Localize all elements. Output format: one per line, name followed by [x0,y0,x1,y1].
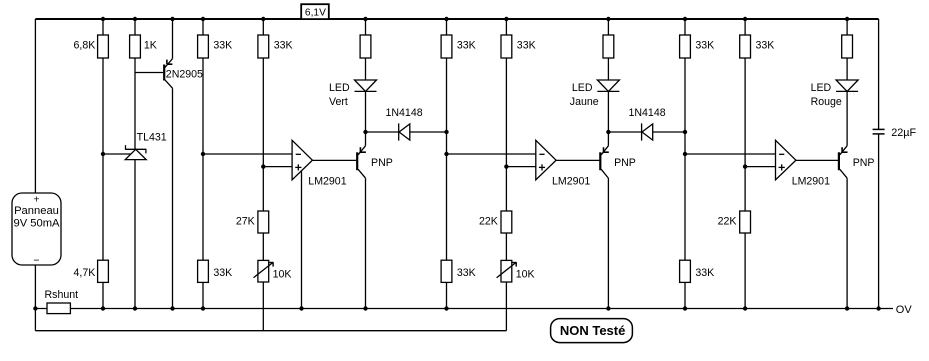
LED D2 triangle [597,80,619,91]
LED D1 triangle [355,80,377,91]
TL431 anode triangle [125,149,146,159]
wire TL431 ref [103,153,131,155]
wire minus column stage 3 [684,58,686,260]
wire PNP emitter vertical stage 3 [846,91,848,145]
op-amp U2 LM2901 [536,140,556,180]
svg-text:−: − [33,255,39,267]
wire op-amp output stage 1 [312,159,356,161]
wire 22K to 0V stage 3 [744,233,746,309]
junction node (365.5,132.0) [363,130,367,134]
svg-text:NON Testé: NON Testé [560,323,626,338]
wire 22K to pot stage 2 [505,233,507,260]
wire rail to 33K (stage 1 plus col) [262,19,264,35]
svg-text:LM2901: LM2901 [308,175,346,187]
resistor 27K stage 1 [258,211,269,233]
svg-text:33K: 33K [756,39,775,51]
resistor 6,8K [98,35,109,58]
wire 4,7K to 0V [102,282,104,308]
junction top rail x=172.5 [170,17,174,21]
wire TL431 to 0V [134,160,136,309]
wire minus column stage 1 [202,58,204,260]
wire diode D2 to next stage [653,131,685,133]
wire non-inverting input stage 3 [745,166,775,168]
junction top rail x=103.0 [101,17,105,21]
wire 1K to 2N2905 base [135,72,163,74]
wire plus column stage 2 [505,58,507,211]
junction top rail x=608.4 [606,17,610,21]
potentiometer 10K arrowhead h stage 2 [512,262,516,264]
LED D2 cathode bar [597,90,619,92]
svg-text:33K: 33K [695,39,714,51]
TL431 bar left hook [125,145,127,150]
annotation NON Testé box [551,319,633,343]
wire right rail lower [878,134,880,309]
wire minus column stage 2 [446,58,448,260]
wire non-inverting input stage 2 [506,166,535,168]
PNP emitter diagonal stage 3 [840,146,847,155]
svg-text:2N2905: 2N2905 [166,69,203,81]
capacitor C1 22uF bottom plate [873,133,885,135]
junction node (745.1,166.6) [743,164,747,168]
resistor 33K top stage 3 minus col [680,35,691,58]
capacitor C1 22uF top plate [873,128,885,130]
junction top rail x=506.4 [504,17,508,21]
resistor LED series stage 3 [842,35,853,58]
wire top rail 6,1V net [35,18,878,20]
wire panel - to shunt node [34,265,36,309]
resistor 33K bottom stage 1 [198,260,209,282]
wire PNP emitter vertical stage 1 [365,132,367,146]
junction top rail x=135.0 [133,17,137,21]
svg-text:22K: 22K [479,216,498,228]
svg-text:27K: 27K [236,216,255,228]
resistor 33K top stage 3 plus col [740,35,751,58]
wire 2N2905 collector to 0V [172,88,174,308]
op-amp plus sign stage 3 h [779,166,785,168]
svg-text:33K: 33K [695,267,714,279]
svg-text:1N4148: 1N4148 [386,107,423,119]
wire 33K bottom to 0V stage 3 [684,282,686,308]
PNP collector diagonal stage 1 [358,169,365,178]
op-amp plus sign stage 3 v [781,164,783,170]
potentiometer 10K body stage 1 [258,260,269,282]
svg-text:1N4148: 1N4148 [629,107,666,119]
svg-text:OV: OV [896,304,913,316]
svg-text:PNP: PNP [853,157,875,169]
battery source Panneau 9V 50mA [12,193,61,265]
svg-text:Jaune: Jaune [570,96,599,108]
svg-text:33K: 33K [457,267,476,279]
transistor Q2 PNP bar [356,152,358,170]
resistor 33K top stage 1 plus col [258,35,269,58]
PNP emitter arrow barb v stage 3 [841,147,843,152]
TL431 cathode bar [126,148,146,150]
PNP emitter arrow barb h stage 2 [604,151,609,153]
wire emitter node to diode D2 [608,131,641,133]
PNP emitter arrow barb h stage 1 [360,151,366,153]
wire plus column stage 1 [262,58,264,211]
wire rail to 1K [134,19,136,35]
wire op-amp output stage 2 [556,159,599,161]
wire rail to LED resistor stage 1 [365,19,367,35]
node 6,1V box [301,4,329,19]
wire lower return to pots [35,330,506,332]
wire resistor to LED stage 2 [607,58,609,80]
svg-text:PNP: PNP [614,157,636,169]
svg-text:Rouge: Rouge [811,96,842,108]
svg-text:6,8K: 6,8K [74,39,96,51]
resistor 22K stage 2 [501,211,512,233]
junction bottom rail x=301.5 [299,306,303,310]
resistor 4,7K [98,260,109,282]
resistor 22K stage 3 [740,211,751,233]
potentiometer 10K arrow stage 1 [254,262,274,277]
PNP emitter arrow barb v stage 1 [359,147,361,152]
op-amp plus sign stage 2 v [541,164,543,170]
wire plus column stage 3 [744,58,746,211]
potentiometer 10K body stage 2 [501,260,512,282]
2N2905 emitter arrow barb h [167,63,173,65]
PNP collector diagonal stage 3 [840,169,847,178]
svg-text:33K: 33K [213,267,232,279]
junction node (506.4,166.6) [504,164,508,168]
op-amp U1 LM2901 [292,140,312,180]
resistor LED series stage 2 [603,35,614,58]
junction bottom rail x=203.0 [201,306,205,310]
diode 1N4148 #2 cathode bar [641,123,643,140]
wire LED to emitter node stage 1 [365,91,367,132]
svg-text:4,7K: 4,7K [74,267,96,279]
svg-text:+: + [33,194,39,206]
PNP emitter arrow barb h stage 3 [842,151,847,153]
junction bottom rail x=685.0 [683,306,687,310]
potentiometer 10K arrowhead v stage 1 [272,262,274,266]
junction bottom rail x=135.0 [133,306,137,310]
svg-text:Rshunt: Rshunt [45,289,79,301]
resistor 33K top stage 2 plus col [501,35,512,58]
wire 1K to TL431 [134,58,136,149]
junction top rail x=685.0 [683,17,687,21]
op-amp plus sign stage 2 h [539,166,545,168]
svg-text:LM2901: LM2901 [552,175,590,187]
wire PNP emitter vertical stage 2 [607,132,609,146]
svg-text:6,1V: 6,1V [305,7,326,18]
TL431 bar right hook [145,149,147,154]
junction node (446.5,132.0) [444,130,448,134]
op-amp minus sign stage 3 [779,153,784,155]
svg-text:33K: 33K [213,39,232,51]
2N2905 emitter arrow barb v [166,60,168,65]
resistor Rshunt [47,303,70,314]
wire PNP collector to 0V stage 2 [607,178,609,308]
svg-text:10K: 10K [273,269,292,281]
wire rail to 33K (stage 2 minus col) [446,19,448,35]
LED D3 triangle [836,80,858,91]
transistor Q4 PNP bar [838,152,840,170]
op-amp U3 LM2901 [776,140,796,180]
svg-text:LED: LED [572,82,593,94]
junction bottom rail x=446.5 [444,306,448,310]
op-amp minus sign stage 1 [296,153,301,155]
svg-text:33K: 33K [274,39,293,51]
wire inverting input stage 2 [447,153,536,155]
junction bottom rail x=878.6 [876,306,880,310]
junction top rail x=745.1 [743,17,747,21]
junction bottom rail x=745.1 [743,306,747,310]
resistor 1K [130,35,141,58]
diode 1N4148 #1 cathode bar [398,123,400,140]
junction node (103.0,154.0) [101,152,105,156]
PNP emitter arrow barb v stage 2 [603,147,605,152]
junction node (685.0,132.0) [683,130,687,134]
resistor 33K bottom stage 2 [441,260,452,282]
svg-text:22µF: 22µF [891,127,916,139]
PNP emitter diagonal stage 2 [601,146,608,155]
junction bottom rail x=365.5 [363,306,367,310]
transistor Q3 PNP bar [599,152,601,170]
potentiometer 10K arrowhead v stage 2 [515,262,517,266]
junction bottom rail x=35.4 [33,306,37,310]
op-amp plus sign stage 1 h [295,166,301,168]
diode 1N4148 #2 triangle [642,124,653,140]
op-amp plus sign stage 1 v [297,164,299,170]
transistor Q1 2N2905 bar [163,65,165,81]
wire rail to 6,8K [102,19,104,35]
resistor 33K top stage 1 minus col [198,35,209,58]
wire 33K bottom to 0V stage 1 [202,282,204,308]
potentiometer 10K arrow stage 2 [497,262,517,277]
PNP emitter diagonal stage 1 [358,146,365,155]
junction node (608.4,132.0) [606,130,610,134]
wire rail to LED resistor stage 2 [607,19,609,35]
svg-text:LM2901: LM2901 [792,175,830,187]
junction node (203.0,154.0) [201,152,205,156]
svg-text:33K: 33K [457,39,476,51]
resistor 33K top stage 2 minus col [441,35,452,58]
junction top rail x=203.0 [201,17,205,21]
junction top rail x=446.5 [444,17,448,21]
svg-text:9V 50mA: 9V 50mA [13,217,60,229]
wire right rail upper [878,19,880,129]
svg-text:LED: LED [329,82,350,94]
wire PNP collector to 0V stage 3 [846,178,848,308]
wire resistor to LED stage 1 [365,58,367,80]
PNP collector diagonal stage 2 [601,169,608,178]
junction bottom rail x=608.4 [606,306,610,310]
wire rail to LED resistor stage 3 [846,19,848,35]
wire pot to lower return stage 1 [262,282,264,331]
wire 6,8K to 4,7K [102,58,104,260]
svg-text:LED: LED [811,82,832,94]
wire inverting input stage 3 [685,153,776,155]
junction bottom rail x=103.0 [101,306,105,310]
2N2905 collector diagonal [165,80,173,88]
wire rail to 33K (stage 2 plus col) [505,19,507,35]
wire rail to 33K (stage 1 minus col) [202,19,204,35]
junction top rail x=365.5 [363,17,367,21]
svg-text:Panneau: Panneau [14,205,59,217]
junction node (446.5,154.0) [444,152,448,156]
wire rail to 33K (stage 3 minus col) [684,19,686,35]
wire resistor to LED stage 3 [846,58,848,80]
wire op-amp output stage 3 [796,159,838,161]
wire 27K to pot stage 1 [262,233,264,260]
svg-text:Vert: Vert [329,96,348,108]
wire inverting input stage 1 [203,153,292,155]
diode 1N4148 #1 triangle [399,124,410,140]
wire non-inverting input stage 1 [263,166,292,168]
wire 33K bottom to 0V stage 2 [446,282,448,308]
wire diode D1 to next stage [410,131,447,133]
wire op-amp V- pin to 0V [301,171,303,308]
junction top rail x=263.3 [261,17,265,21]
LED D3 cathode bar [836,90,858,92]
junction node (685.0,154.0) [683,152,687,156]
junction top rail x=847.1 [845,17,849,21]
wire left rail to panel + [34,19,36,193]
LED D1 cathode bar [355,90,377,92]
svg-text:TL431: TL431 [137,132,167,144]
svg-text:PNP: PNP [371,157,393,169]
wire bottom rail 0V net [35,308,893,310]
wire pot to lower return stage 2 [505,282,507,331]
junction bottom rail x=847.1 [845,306,849,310]
op-amp minus sign stage 2 [539,153,544,155]
resistor LED series stage 1 [360,35,371,58]
potentiometer 10K arrowhead h stage 1 [269,262,273,264]
2N2905 emitter diagonal [165,59,173,68]
svg-text:33K: 33K [517,39,536,51]
resistor 33K bottom stage 3 [680,260,691,282]
junction node (263.3,166.6) [261,164,265,168]
svg-text:10K: 10K [516,269,535,281]
wire 2N2905 emitter to rail [172,19,174,59]
wire PNP collector to 0V stage 1 [365,178,367,308]
wire LED to emitter node stage 2 [607,91,609,132]
wire rail to 33K (stage 3 plus col) [744,19,746,35]
svg-text:1K: 1K [144,39,157,51]
wire emitter node to diode D1 [366,131,399,133]
wire shunt node down [34,309,36,331]
junction bottom rail x=172.5 [170,306,174,310]
svg-text:22K: 22K [718,216,737,228]
